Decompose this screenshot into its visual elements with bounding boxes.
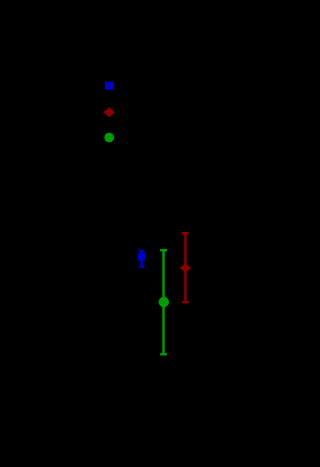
blue error bar (series 1): [139, 251, 145, 267]
red error bar (series 3): [182, 233, 189, 302]
blue square marker (series 1): [138, 253, 146, 261]
legend marker red diamond: [103, 107, 115, 117]
legend marker green circle: [104, 133, 114, 143]
green error bar (series 2): [160, 250, 167, 354]
legend marker blue square: [105, 82, 114, 90]
red diamond marker (series 3): [180, 264, 191, 273]
green circle marker (series 2): [159, 297, 169, 307]
